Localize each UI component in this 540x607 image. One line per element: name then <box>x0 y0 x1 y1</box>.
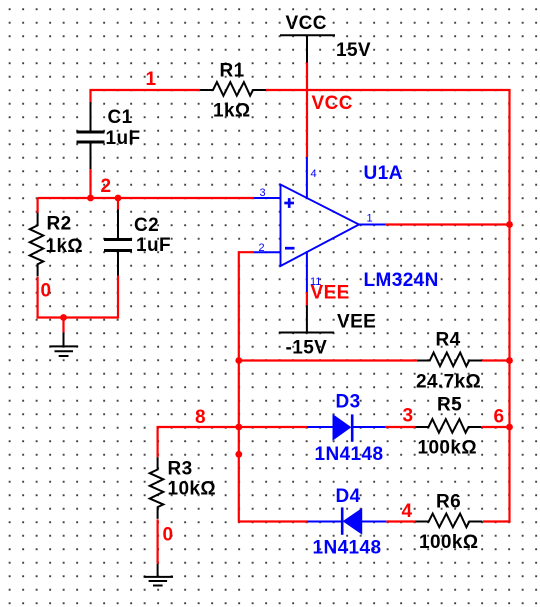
svg-text:4: 4 <box>311 168 317 180</box>
svg-text:R1: R1 <box>220 61 245 82</box>
svg-text:R3: R3 <box>168 459 193 480</box>
svg-text:LM324N: LM324N <box>364 270 439 291</box>
svg-text:24.7kΩ: 24.7kΩ <box>416 372 481 393</box>
svg-text:1: 1 <box>367 213 373 225</box>
svg-text:C2: C2 <box>134 215 159 236</box>
svg-text:15V: 15V <box>336 40 371 61</box>
svg-text:1kΩ: 1kΩ <box>46 236 84 257</box>
svg-text:3: 3 <box>260 187 266 199</box>
svg-text:D4: D4 <box>336 486 361 507</box>
svg-text:3: 3 <box>403 406 414 427</box>
svg-text:1kΩ: 1kΩ <box>213 101 251 122</box>
svg-text:2: 2 <box>101 176 112 197</box>
svg-text:1N4148: 1N4148 <box>313 538 382 559</box>
svg-text:1: 1 <box>146 69 157 90</box>
svg-text:-15V: -15V <box>286 338 328 359</box>
svg-text:R2: R2 <box>47 214 72 235</box>
svg-text:100kΩ: 100kΩ <box>418 438 478 459</box>
svg-text:VCC: VCC <box>286 13 327 34</box>
svg-text:VEE: VEE <box>337 312 376 333</box>
svg-text:0: 0 <box>163 525 174 546</box>
svg-text:10kΩ: 10kΩ <box>168 479 217 500</box>
svg-text:R5: R5 <box>437 395 462 416</box>
svg-text:4: 4 <box>402 501 413 522</box>
svg-text:U1A: U1A <box>364 163 403 184</box>
svg-text:R6: R6 <box>436 492 461 513</box>
svg-text:8: 8 <box>195 407 206 428</box>
svg-text:1uF: 1uF <box>106 128 141 149</box>
svg-text:0: 0 <box>41 281 52 302</box>
svg-text:1uF: 1uF <box>136 235 171 256</box>
svg-text:2: 2 <box>259 242 265 254</box>
svg-text:D3: D3 <box>336 392 361 413</box>
svg-text:C1: C1 <box>108 107 133 128</box>
svg-text:VCC: VCC <box>312 93 353 114</box>
svg-text:11: 11 <box>310 276 321 288</box>
svg-text:R4: R4 <box>436 330 461 351</box>
svg-text:6: 6 <box>494 407 505 428</box>
svg-text:100kΩ: 100kΩ <box>419 532 479 553</box>
svg-text:1N4148: 1N4148 <box>315 444 384 465</box>
